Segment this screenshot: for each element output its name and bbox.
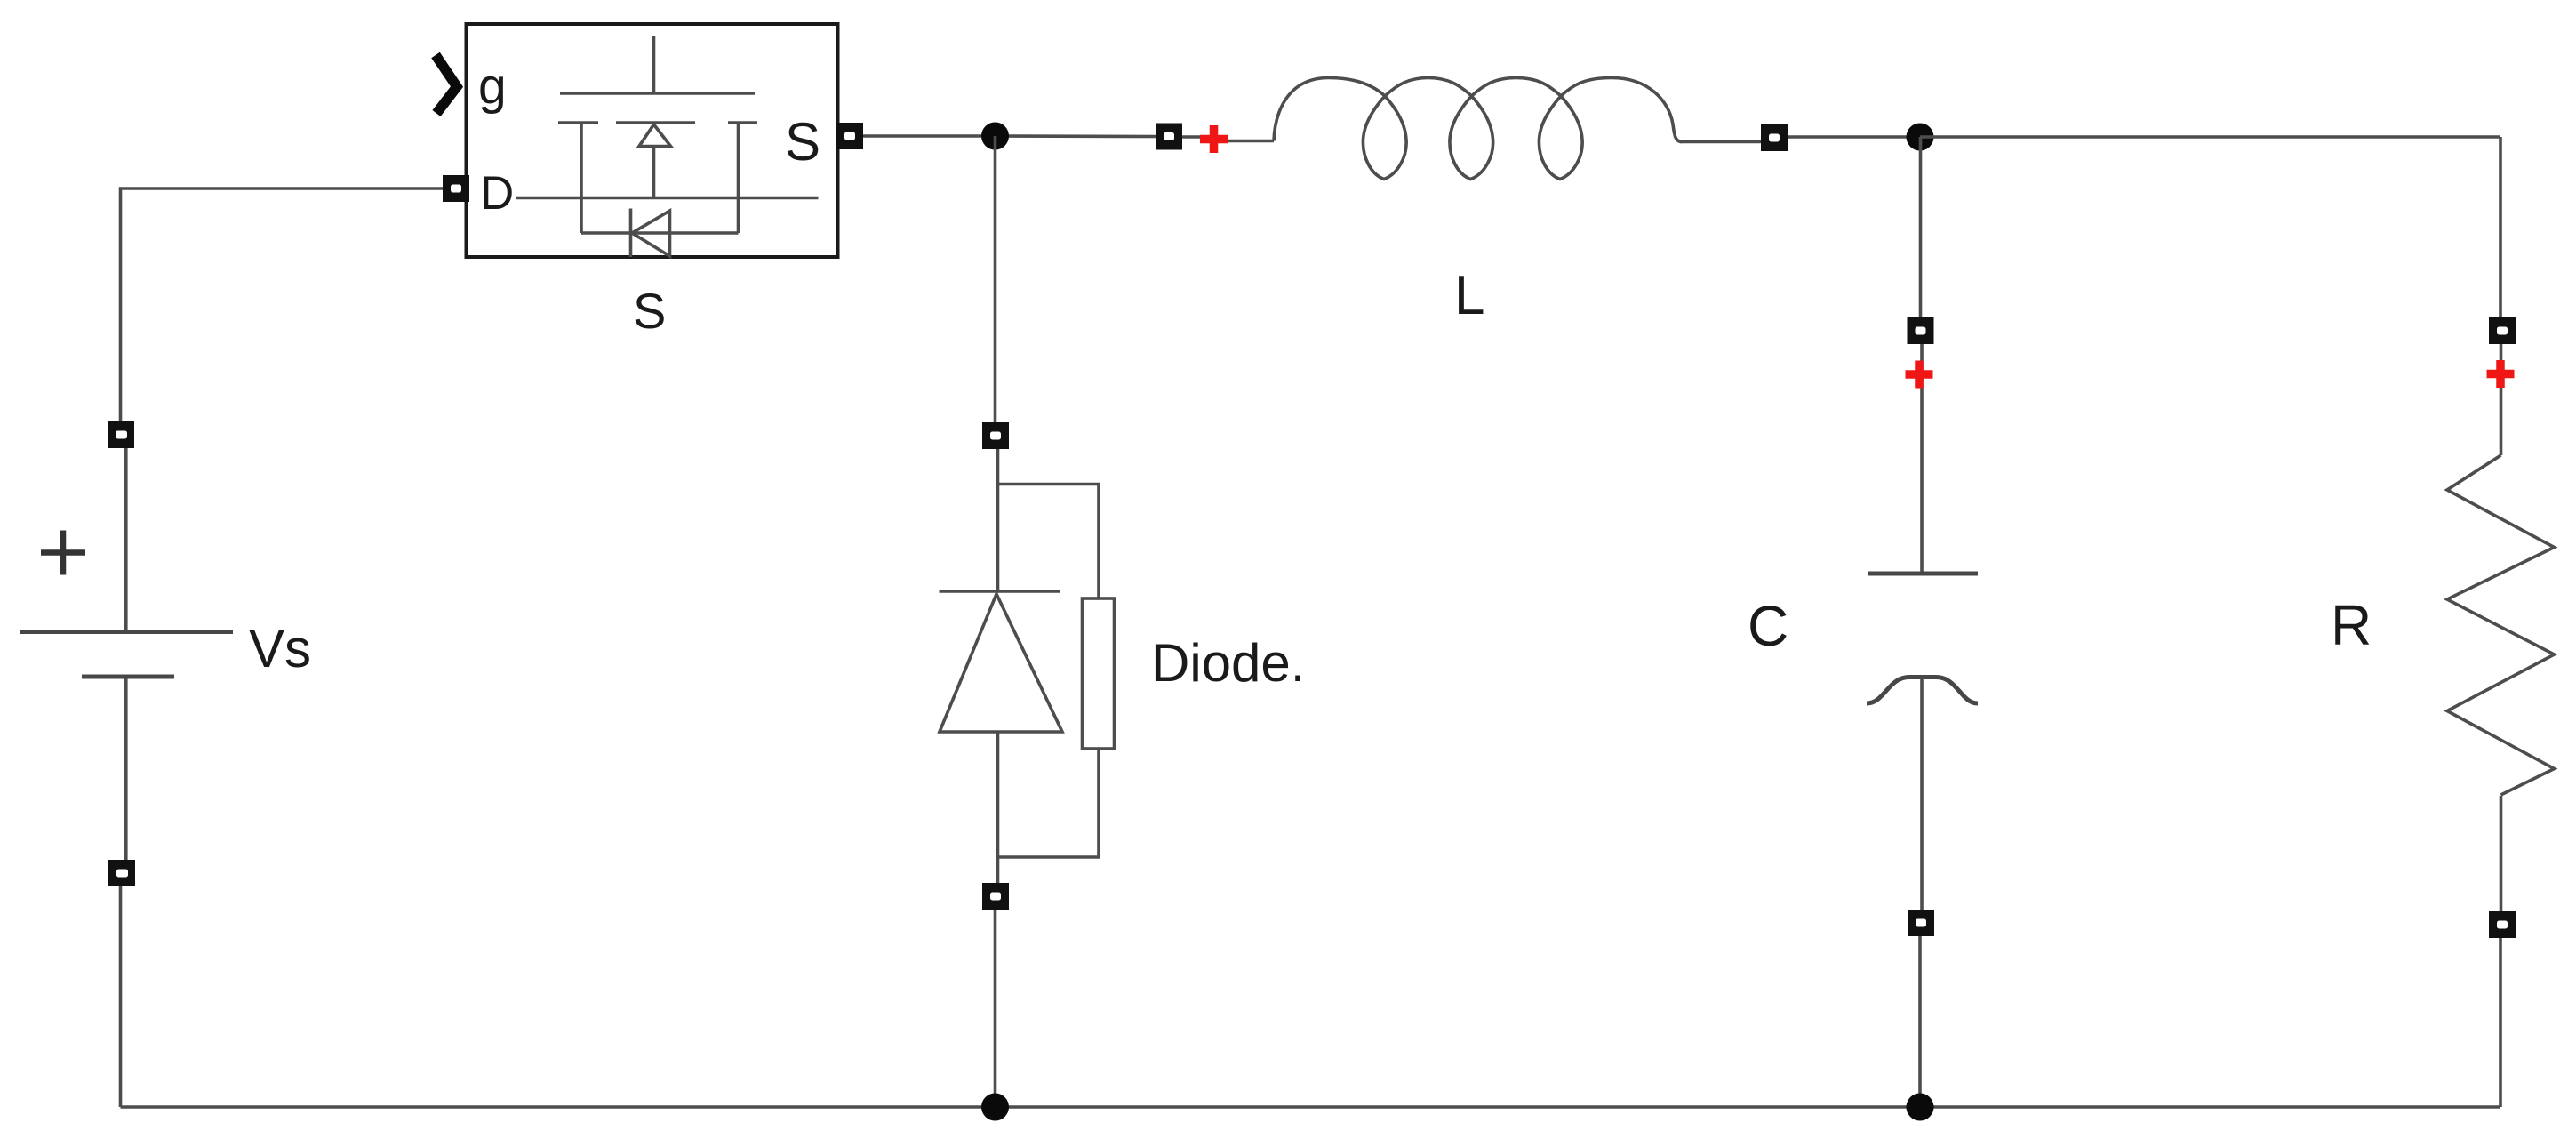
label R <box>2331 593 2372 657</box>
label L <box>1454 265 1484 326</box>
label Diode. <box>1151 633 1305 693</box>
port square inductor right <box>1761 124 1788 151</box>
red plus at resistor top <box>2487 360 2515 388</box>
wire from node A to inductor left port <box>996 134 1157 138</box>
svg-text:g: g <box>478 58 507 115</box>
svg-text:D: D <box>480 167 514 220</box>
svg-text:S: S <box>785 112 820 172</box>
pin label g <box>478 58 507 115</box>
wire from coil to inductor right port <box>1680 140 1761 144</box>
port square capacitor bottom <box>1908 910 1934 936</box>
port square diode top <box>982 422 1009 449</box>
red plus at capacitor top <box>1906 361 1933 389</box>
capacitor C <box>1867 344 1978 910</box>
wire from Vs top to MOSFET D port <box>121 188 445 421</box>
svg-text:L: L <box>1454 265 1484 326</box>
battery Vs <box>20 448 233 677</box>
wire from Vs bottom plate to Vs lower port <box>124 677 128 860</box>
top wire from node C to right rail <box>1920 135 2500 139</box>
port square resistor top <box>2489 317 2516 344</box>
svg-text:S: S <box>633 283 666 339</box>
svg-text:Diode.: Diode. <box>1151 633 1305 693</box>
svg-text:C: C <box>1748 594 1788 658</box>
port S square of mosfet <box>836 123 863 149</box>
label Vs <box>249 619 311 678</box>
node D junction dot <box>1907 1094 1934 1121</box>
wire from node A down to diode top port <box>994 136 997 422</box>
diode D1 <box>940 449 1063 883</box>
svg-text:Vs: Vs <box>249 619 311 678</box>
inductor L coil <box>1274 78 1682 180</box>
svg-text:R: R <box>2331 593 2372 657</box>
red plus at inductor input <box>1200 125 1228 153</box>
port square resistor bottom <box>2489 911 2516 938</box>
pin label S <box>785 112 820 172</box>
port square inductor left <box>1156 124 1182 150</box>
right rail wire down to resistor top port <box>2499 137 2502 317</box>
wire from mosfet S port to node A <box>863 134 996 138</box>
bottom rail wire <box>121 1105 2501 1109</box>
mosfet internal gate symbol <box>558 36 757 233</box>
mosfet block outline U1 <box>467 24 838 257</box>
label C <box>1748 594 1788 658</box>
mosfet body diode arrow <box>639 124 671 198</box>
wire diode bottom port to bottom rail node B <box>994 910 997 1107</box>
gate input chevron <box>436 55 457 114</box>
node C junction dot <box>1907 124 1934 151</box>
port of Vs top <box>108 421 134 448</box>
resistor R zigzag <box>2447 344 2555 911</box>
wire resistor bottom port to bottom rail <box>2499 938 2502 1107</box>
diode snubber branch <box>998 485 1115 858</box>
block name S <box>633 283 666 339</box>
wire node C down to capacitor top port <box>1919 137 1923 317</box>
wire capacitor bottom port to node D <box>1918 936 1922 1107</box>
pin label D <box>480 167 514 220</box>
port of Vs bottom <box>108 860 135 886</box>
wire from inductor right port to node C <box>1788 135 1920 139</box>
mosfet internal drain wire <box>516 197 819 200</box>
port D square of mosfet <box>443 175 469 202</box>
mosfet internal antiparallel diode <box>581 209 739 258</box>
node A junction dot <box>981 123 1009 150</box>
port square diode bottom <box>982 883 1009 910</box>
wire from Vs lower port to bottom rail <box>119 886 123 1107</box>
wire from inductor left port to coil <box>1182 137 1274 141</box>
port square capacitor top <box>1908 317 1934 344</box>
node B junction dot <box>981 1094 1009 1121</box>
